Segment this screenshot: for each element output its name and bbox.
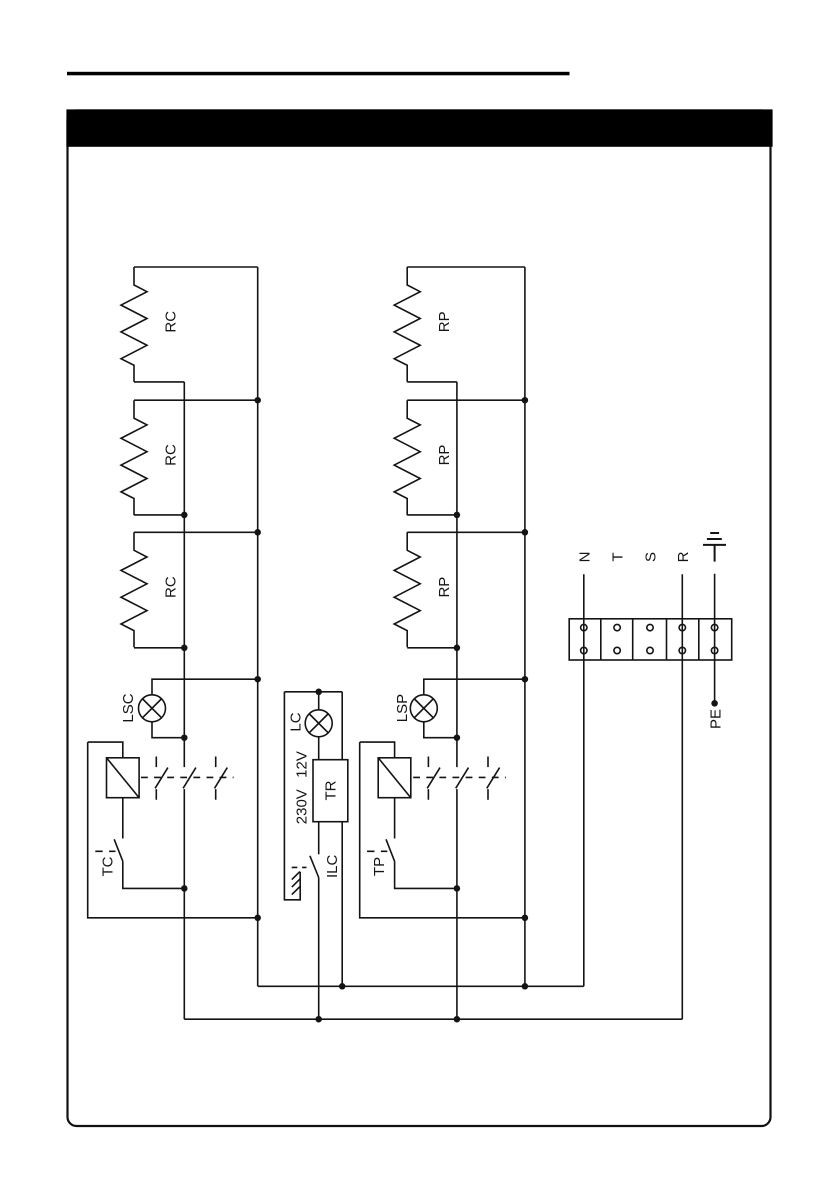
wire R	[681, 574, 683, 1019]
svg-text:230V: 230V	[294, 789, 311, 824]
node right inner bus / LSP bottom	[454, 734, 461, 741]
svg-text:LSC: LSC	[120, 693, 137, 722]
contactor coil C (left)	[107, 758, 140, 798]
switch ILC blade	[310, 856, 319, 878]
wire N	[583, 574, 585, 986]
node PE end	[711, 700, 718, 707]
node right outer bus / coil P return	[522, 915, 529, 922]
svg-text:RP: RP	[436, 311, 453, 332]
resistor RC3	[121, 532, 147, 647]
svg-text:LC: LC	[288, 712, 305, 731]
wire RP3 top	[407, 531, 525, 533]
contactor C linkage dashes	[141, 776, 234, 778]
svg-text:TR: TR	[322, 780, 339, 800]
node right inner bus / TP out	[454, 885, 461, 892]
resistor RC2	[121, 400, 147, 515]
svg-text:RC: RC	[163, 576, 180, 598]
wire coil P bottom	[394, 798, 396, 839]
wire RC3 top	[134, 531, 258, 533]
wire RC2 bottom	[134, 514, 184, 516]
wire RC3 bottom	[134, 647, 184, 649]
ILC wall wire	[284, 692, 300, 900]
contact P1	[427, 757, 440, 800]
earth symbol	[703, 533, 726, 562]
wire PE	[714, 574, 716, 703]
node left outer bus / RC2 top	[254, 397, 261, 404]
node left outer bus / LSC top	[254, 676, 261, 683]
node bus B / ILC out	[315, 1016, 322, 1023]
contact P2 blade (on bus)	[456, 768, 469, 789]
terminal circles row bottom	[581, 647, 718, 653]
resistor RP1	[394, 267, 420, 382]
contact C1	[155, 757, 168, 800]
svg-text:RC: RC	[163, 311, 180, 333]
wire LC bottom	[318, 737, 320, 760]
wire RC2 top	[134, 399, 258, 401]
bus B bottom	[184, 1018, 682, 1020]
wire right inner bus lower	[456, 789, 458, 1019]
switch TP blade	[386, 839, 395, 861]
resistor RP2	[394, 400, 420, 515]
contact C2 blade (on bus)	[183, 768, 196, 789]
svg-text:T: T	[610, 552, 627, 561]
lamp LSP	[410, 695, 437, 722]
wire RC1 bottom	[134, 381, 184, 383]
terminal block	[569, 619, 732, 660]
node left inner bus / RC3 bottom	[181, 645, 188, 652]
terminal circles row top	[581, 624, 718, 630]
wire RP2 top	[407, 399, 525, 401]
node left inner bus / RC2 bottom	[181, 512, 188, 519]
node left outer bus / coil C return	[254, 915, 261, 922]
node right outer bus / RP3 top	[522, 529, 529, 536]
wire left inner bus upper	[183, 382, 185, 767]
terminal divider 4	[698, 619, 700, 660]
contact P3	[487, 757, 500, 800]
contact C3	[215, 757, 228, 800]
wire right outer bus	[524, 267, 526, 986]
node right inner bus / RP2 bottom	[454, 512, 461, 519]
wire left inner bus lower	[183, 789, 185, 1019]
wire RP3 bottom	[407, 647, 457, 649]
terminal divider 1	[600, 619, 602, 660]
node left inner bus / LSC bottom	[181, 734, 188, 741]
bus A bottom	[258, 985, 584, 987]
svg-text:TP: TP	[371, 857, 388, 876]
svg-text:TC: TC	[99, 856, 116, 876]
svg-text:S: S	[643, 552, 660, 562]
wire TP out	[395, 861, 457, 888]
wire RP1 bottom	[407, 381, 457, 383]
wire RP1 top	[407, 266, 525, 268]
switch TC dashed actuator	[95, 850, 115, 852]
wire TR right top	[341, 692, 343, 760]
wire TC out	[123, 861, 185, 888]
svg-text:N: N	[576, 552, 593, 563]
wire LSC top	[152, 679, 258, 695]
svg-text:12V: 12V	[294, 751, 311, 778]
wire left outer bus	[257, 267, 259, 986]
terminal divider 2	[632, 619, 634, 660]
node bus A / right outer bus	[522, 983, 529, 990]
contactor coil P (right)	[378, 758, 411, 798]
node right outer bus / LSP top	[522, 676, 529, 683]
svg-text:R: R	[675, 551, 692, 562]
switch TP dashed actuator	[367, 850, 387, 852]
wire LSC bottom	[152, 722, 184, 738]
wire coil P top	[360, 742, 395, 758]
wire coil C top	[88, 742, 123, 758]
svg-text:PE: PE	[708, 709, 725, 729]
wire LSP bottom	[424, 722, 457, 738]
svg-text:RC: RC	[163, 444, 180, 466]
wire LC top	[318, 692, 320, 710]
wire LSP top	[424, 679, 525, 695]
svg-text:LSP: LSP	[394, 694, 411, 722]
wire ILC out	[318, 878, 320, 1020]
wire right inner bus upper	[456, 382, 458, 767]
wire TR left bottom	[318, 822, 320, 855]
node right inner bus / RP3 bottom	[454, 645, 461, 652]
terminal divider 3	[666, 619, 668, 660]
wire RP2 bottom	[407, 514, 457, 516]
node bus A / TR right	[339, 983, 346, 990]
svg-text:RP: RP	[436, 445, 453, 466]
svg-text:ILC: ILC	[324, 854, 341, 878]
wire LC feeder top	[284, 691, 342, 693]
wire RC1 top	[134, 266, 258, 268]
lamp LSC	[139, 695, 166, 722]
node left outer bus / RC3 top	[254, 529, 261, 536]
wire coil P left branch	[360, 742, 525, 918]
lamp LC	[305, 710, 332, 737]
resistor RP3	[394, 532, 420, 647]
switch TC blade	[114, 839, 123, 861]
transformer TR	[313, 760, 348, 822]
resistor RC1	[121, 267, 147, 382]
wire coil C left branch	[88, 742, 258, 918]
node LC feeder	[315, 689, 322, 696]
node right outer bus / RP2 top	[522, 397, 529, 404]
switch ILC dashed actuator	[292, 866, 307, 868]
svg-text:RP: RP	[436, 577, 453, 598]
node bus B / right inner bus	[454, 1016, 461, 1023]
ILC wall hatching	[292, 872, 300, 895]
wire TR right bottom	[341, 822, 343, 987]
wire coil C bottom	[122, 798, 124, 839]
contactor P linkage dashes	[413, 776, 506, 778]
node left inner bus / TC out	[181, 885, 188, 892]
